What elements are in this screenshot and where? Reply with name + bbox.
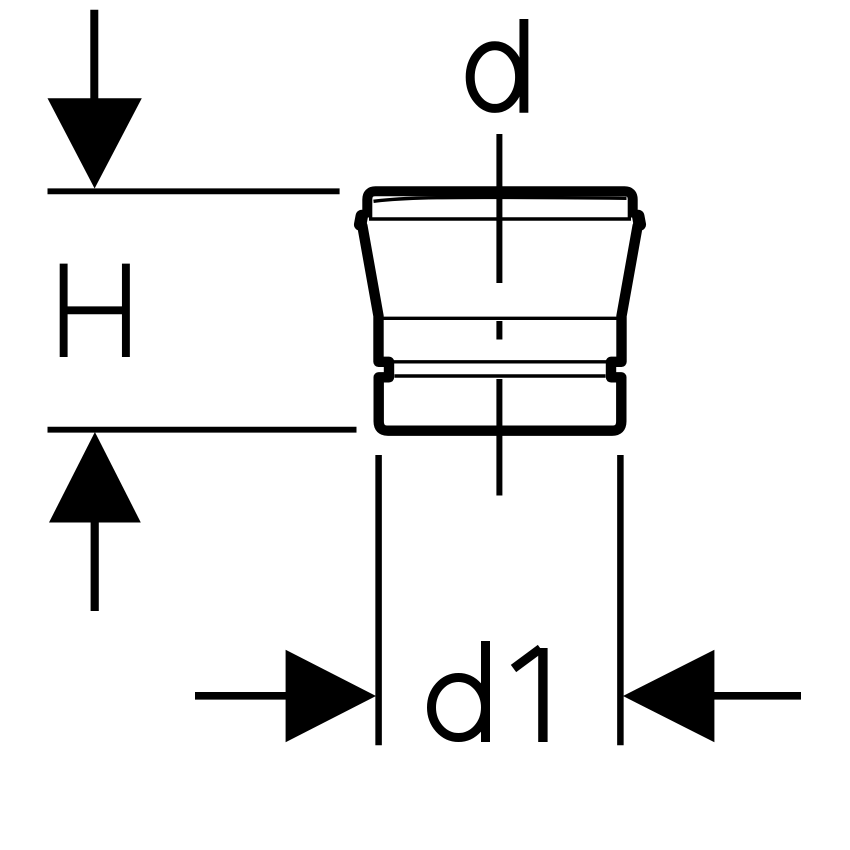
thin line groove bottom [395, 374, 606, 377]
dimension line H top (extension of fitting top edge) [48, 188, 340, 194]
fitting outline: collar (top socket rim) [367, 191, 632, 217]
thin line collar inner (mouth arc) [374, 197, 627, 201]
thin line body mid [380, 317, 620, 320]
d1 extension line right [617, 455, 624, 745]
arrow left (d1 dimension, right side) [623, 650, 801, 742]
d1 extension line left [375, 455, 382, 745]
thin line groove top [394, 360, 606, 363]
label d (top diameter) [470, 19, 524, 113]
thin line collar bottom [369, 217, 631, 220]
fitting gasket bead left [360, 216, 362, 225]
label H (height) [64, 264, 126, 357]
arrow up (H dimension, bottom) [49, 432, 141, 611]
fitting left side: taper, wall and snap-ring groove [362, 226, 637, 431]
centerline of fitting (vertical axis) [496, 134, 502, 496]
dimension line H bottom (extension of fitting bottom edge) [48, 427, 357, 433]
fitting gasket bead right [638, 216, 640, 225]
arrow down (H dimension, top) [48, 10, 142, 189]
label d1 (bottom diameter) [432, 641, 543, 742]
arrow right (d1 dimension, left side) [195, 650, 376, 742]
